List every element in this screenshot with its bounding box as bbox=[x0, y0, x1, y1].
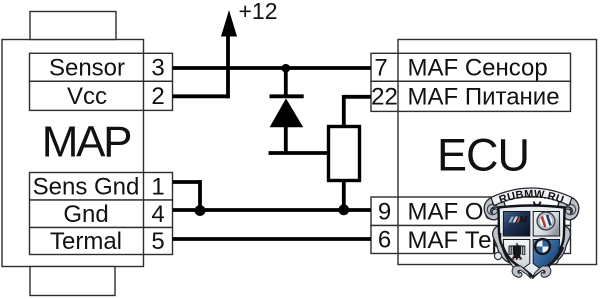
node junction pin1/pin4 bbox=[195, 205, 206, 216]
scroll ornament right bbox=[553, 197, 579, 263]
node junction on pin3 wire bbox=[282, 64, 291, 73]
svg-text:3: 3 bbox=[151, 54, 164, 81]
wire resistor bottom to ground node bbox=[342, 181, 346, 210]
svg-text:4: 4 bbox=[151, 201, 164, 228]
svg-text:22: 22 bbox=[371, 83, 398, 110]
wire pin1 down to pin4 wire bbox=[198, 180, 202, 210]
laurel badge ring bbox=[536, 211, 555, 230]
pin row Sens Gnd / 1 bbox=[30, 173, 173, 201]
svg-text:Gnd: Gnd bbox=[63, 201, 108, 228]
pin row Vcc / 2 bbox=[30, 81, 173, 110]
eagle bbox=[509, 242, 526, 261]
wire +12 vertical riser bbox=[226, 30, 230, 98]
+12 supply arrow head bbox=[221, 10, 237, 37]
wire pin3 to pin7 bbox=[173, 66, 372, 70]
shield panel TL (BMW M stripes) bbox=[503, 212, 530, 237]
eagle wing slats bbox=[510, 247, 525, 254]
pin row 6 / MAF Termal bbox=[371, 226, 571, 254]
svg-text:5: 5 bbox=[151, 228, 164, 255]
resistor R1 body bbox=[329, 127, 360, 181]
svg-text:M: M bbox=[519, 215, 528, 226]
svg-text:Vcc: Vcc bbox=[67, 83, 107, 110]
M slash 3 bbox=[517, 217, 523, 223]
bottom tip flourish right bbox=[532, 266, 551, 279]
scroll ornament left bbox=[484, 197, 510, 263]
shield outer bbox=[499, 206, 565, 278]
svg-text:Termal: Termal bbox=[50, 228, 122, 255]
svg-text:Sensor: Sensor bbox=[49, 54, 125, 81]
M slash 1 bbox=[509, 217, 515, 223]
pin row Gnd / 4 bbox=[30, 200, 173, 228]
pin row 9 / MAF Ground bbox=[371, 197, 571, 226]
wire pin22 horizontal bbox=[344, 95, 371, 99]
svg-text:ECU: ECU bbox=[437, 130, 529, 181]
diode D1 triangle (anode below, pointing up) bbox=[270, 98, 304, 127]
badge stripes bbox=[541, 215, 552, 228]
banner end knot right bbox=[565, 200, 571, 206]
pin row Sensor / 3 bbox=[30, 53, 173, 81]
svg-text:9: 9 bbox=[378, 198, 391, 225]
scroll ball right bbox=[550, 256, 558, 264]
banner end knot left bbox=[492, 200, 498, 206]
svg-text:MAF Сенсор: MAF Сенсор bbox=[408, 55, 548, 82]
svg-text:6: 6 bbox=[378, 227, 391, 254]
bottom tip flourish left bbox=[512, 266, 531, 279]
eagle red feet bbox=[512, 258, 522, 260]
wire pin22 to resistor top bbox=[342, 95, 346, 126]
pin row 7 / MAF Sensor bbox=[371, 53, 571, 81]
diode D1 cathode bar bbox=[270, 94, 304, 98]
scroll left ball bbox=[494, 252, 501, 259]
svg-text:Sens Gnd: Sens Gnd bbox=[33, 173, 140, 200]
MAP top tab bbox=[30, 12, 116, 40]
BMW roundel bbox=[534, 238, 551, 255]
M slash 2 bbox=[513, 217, 519, 223]
svg-text:1: 1 bbox=[151, 173, 164, 200]
node junction resistor/ground wire bbox=[338, 204, 349, 215]
banner ribbon bbox=[491, 188, 572, 206]
wire diode to resistor left side bbox=[269, 151, 330, 155]
watermark logo RUBMW.RU bbox=[484, 188, 579, 279]
scroll right spiral detail bbox=[565, 204, 575, 214]
wire pin5 to pin6 bbox=[173, 237, 372, 241]
shield panel BR (BMW roundel) bbox=[533, 240, 559, 274]
shield panel BL (eagle) bbox=[503, 240, 530, 274]
wire pin1 horizontal bbox=[173, 180, 201, 184]
connector MAP outer box bbox=[2, 40, 144, 267]
svg-text:MAP: MAP bbox=[42, 118, 131, 167]
shield panel TR (laurel badge) bbox=[533, 212, 560, 237]
wire pin4 to pin9 bbox=[173, 208, 372, 212]
svg-text:+12: +12 bbox=[239, 0, 278, 24]
shield bottom chevron band bbox=[500, 233, 563, 277]
wire junction to diode cathode bbox=[284, 68, 288, 96]
scroll left spiral detail bbox=[487, 204, 497, 214]
pin row 22 / MAF Power bbox=[371, 81, 571, 111]
connector ECU outer box bbox=[398, 40, 597, 265]
wire pin2 to +12 riser bbox=[173, 94, 230, 98]
svg-text:2: 2 bbox=[151, 83, 164, 110]
MAP bottom tab bbox=[30, 267, 115, 296]
wire diode anode down bbox=[284, 127, 288, 154]
svg-text:MAF Питание: MAF Питание bbox=[408, 84, 560, 111]
pin row Termal / 5 bbox=[30, 228, 173, 256]
svg-text:7: 7 bbox=[374, 54, 387, 81]
